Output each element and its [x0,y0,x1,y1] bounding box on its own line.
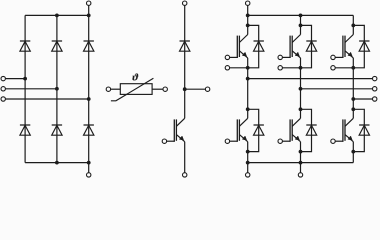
wire leg V bottom diode connect [301,109,312,151]
wire leg U top diode connect [248,25,259,67]
wire thermistor right lead [152,88,163,90]
node leg U bottom diode junction [246,150,250,154]
node AC L3 junction [87,97,91,101]
transistor Q3 IGBT [282,35,300,59]
diode D13 freewheel [359,125,369,135]
wire rectifier bottom rail (-) [25,162,89,164]
wire phase output V [301,88,373,90]
node rectifier top rail leg2 [55,14,59,18]
diode D5 [52,125,62,135]
wire leg W top diode connect [353,25,364,67]
terminal chopper DC+ [183,1,187,5]
terminal inverter DC- 2 [298,173,302,177]
wire chopper top lead [184,5,186,118]
wire inverter DC- stub 2 [300,163,302,173]
transistor Q6 IGBT [335,118,353,142]
wire rectifier top rail (+) [25,14,89,16]
terminal Q7 gate [162,139,166,143]
terminal L1 [1,76,5,80]
terminal Q3 gate [278,55,282,59]
resistor R1 thermistor body [120,84,152,95]
terminal DC- rectifier [87,173,91,177]
node leg V bottom diode junction [299,150,303,154]
terminal phase V [373,87,377,91]
node rectifier bottom rail leg2 [55,161,59,165]
node leg V phase output [299,87,303,91]
terminal inverter DC- 1 [246,173,250,177]
wire AC input L2 [5,88,57,90]
wire inverter DC+ stub [247,5,249,15]
wire DC+ stub [88,5,90,15]
label thermistor theta [132,73,138,80]
node leg V bottom diode branch [299,107,303,111]
terminal phase U [373,76,377,80]
wire rectifier leg 2 [56,15,58,162]
diode D2 [52,41,62,51]
node DC- bus leg U [246,161,250,165]
diode D12 freewheel [359,41,369,51]
terminal Q3 aux emitter [278,66,282,70]
terminal inverter DC+ [246,1,250,5]
diode D4 [20,125,30,135]
wire leg W collector top [352,15,354,34]
wire rectifier leg 3 [88,15,90,162]
terminal Q1 gate [225,55,229,59]
transistor Q1 IGBT [230,35,248,59]
wire leg V collector top [300,15,302,34]
terminal thermistor left [106,87,110,91]
node leg W bottom diode junction [351,150,355,154]
terminal chopper DC- [183,173,187,177]
wire leg V emitter bottom [300,142,302,163]
diode D6 [84,125,94,135]
transistor Q7 chopper IGBT [167,118,185,142]
wire DC- stub [88,163,90,173]
wire leg W bottom diode connect [353,109,364,151]
node DC+ bus leg U [246,14,250,18]
terminal phase W [373,97,377,101]
wire Q5 aux emitter [335,67,353,69]
terminal DC+ rectifier [87,1,91,5]
wire leg W emitter bottom [352,142,354,163]
terminal L3 [1,97,5,101]
diode D7 chopper [180,41,190,51]
wire leg U emitter bottom [247,142,249,163]
terminal Q1 aux emitter [225,66,229,70]
node leg U bottom diode branch [246,107,250,111]
wire Q1 aux emitter [230,67,248,69]
diode D3 [84,41,94,51]
resistor R1 thermistor diagonal [111,78,153,101]
node leg U aux emitter [246,66,250,70]
node DC- bus leg V [299,161,303,165]
wire AC input L1 [5,78,25,80]
terminal thermistor right [163,87,167,91]
terminal Q6 gate [331,139,335,143]
wire phase output W [353,98,372,100]
node DC+ bus leg V [299,14,303,18]
wire inverter DC- bus [248,162,354,164]
wire leg V midpoint [300,58,302,118]
terminal Q2 gate [225,139,229,143]
diode D10 freewheel [306,41,316,51]
wire AC input L3 [5,98,88,100]
transistor Q2 IGBT [230,118,248,142]
wire chopper tap lead [185,88,206,90]
transistor Q4 IGBT [282,118,300,142]
wire Q3 aux emitter [282,67,300,69]
wire leg W midpoint [352,58,354,118]
node AC L2 junction [55,87,59,91]
diode D1 [20,41,30,51]
wire phase output U [248,78,373,80]
transistor Q5 IGBT [335,35,353,59]
node leg W phase output [351,97,355,101]
node chopper tap [183,87,187,91]
node leg W top diode branch [351,24,355,28]
wire inverter DC- stub 1 [247,163,249,173]
terminal Q5 gate [331,55,335,59]
terminal L2 [1,87,5,91]
node leg V top diode branch [299,24,303,28]
diode D11 freewheel [306,125,316,135]
node AC L1 junction [23,77,27,81]
wire chopper bottom lead [184,142,186,173]
node leg U phase output [246,77,250,81]
wire leg V top diode connect [301,25,312,67]
wire thermistor left lead [111,88,121,90]
terminal chopper brake output [205,87,209,91]
wire leg U bottom diode connect [248,109,259,151]
node leg W bottom diode branch [351,107,355,111]
wire leg U midpoint [247,58,249,118]
diode D8 freewheel [254,41,264,51]
node leg W aux emitter [351,66,355,70]
diode D9 freewheel [254,125,264,135]
wire leg U collector top [247,15,249,34]
node rectifier top rail leg3 [87,14,91,18]
wire inverter DC+ bus [248,14,354,16]
terminal Q5 aux emitter [331,66,335,70]
terminal Q4 gate [278,139,282,143]
node leg U top diode branch [246,24,250,28]
node rectifier bottom rail leg3 [87,161,91,165]
node leg V aux emitter [299,66,303,70]
wire rectifier leg 1 [24,15,26,162]
